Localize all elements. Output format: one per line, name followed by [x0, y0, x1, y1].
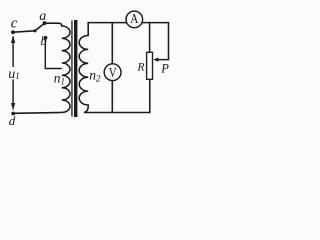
node c terminal [11, 30, 15, 34]
wire bottom right run [85, 112, 150, 114]
voltage u1 arrowhead up [11, 35, 15, 43]
voltage u1 arrow upper segment [12, 37, 14, 67]
transformer secondary winding n2 [79, 36, 88, 106]
svg-text:R: R [137, 62, 145, 74]
wire a to primary winding top [45, 23, 62, 26]
contact a [43, 21, 47, 25]
svg-text:A: A [130, 11, 139, 26]
wire R bottom lead [149, 79, 151, 112]
transformer core thin lamination [71, 21, 72, 117]
wire b tap to primary winding [45, 38, 61, 69]
svg-text:b: b [41, 34, 47, 48]
svg-text:d: d [9, 113, 16, 128]
wire R top lead [149, 23, 151, 53]
wire c to switch pivot [13, 31, 35, 32]
voltmeter V body [104, 64, 121, 81]
rheostat R body [147, 52, 153, 79]
transformer core thick bar [74, 20, 77, 117]
transformer primary winding n1 [62, 26, 70, 112]
node d terminal [11, 112, 15, 116]
voltage u1 arrowhead down [11, 103, 15, 111]
ammeter A body [126, 11, 143, 28]
wire secondary top to ammeter and corner [88, 23, 168, 36]
svg-text:P: P [160, 61, 169, 75]
svg-text:V: V [109, 65, 117, 80]
switch blade closed on contact a [35, 23, 45, 31]
svg-text:a: a [39, 9, 46, 24]
wire primary bottom to d [13, 111, 62, 114]
wiper arrowhead P [153, 58, 158, 62]
wire right branch down to wiper [158, 23, 169, 60]
wire voltmeter branch [111, 23, 113, 113]
wire secondary bottom [85, 105, 88, 112]
voltage u1 arrow lower segment [12, 80, 14, 107]
switch blade pivot junction [33, 29, 36, 32]
svg-text:c: c [11, 16, 18, 32]
contact b [44, 36, 48, 40]
